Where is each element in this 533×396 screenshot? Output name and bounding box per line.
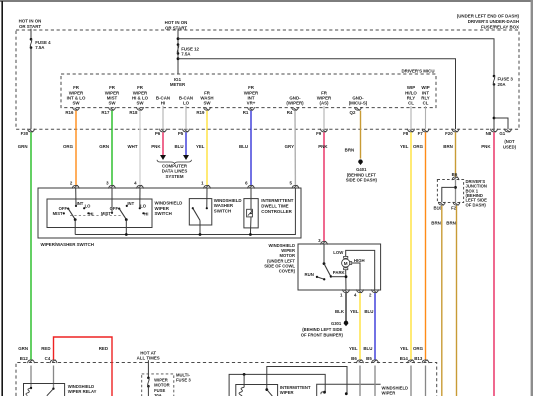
- svg-text:(UNDER LEFT END OF DASH): (UNDER LEFT END OF DASH): [457, 14, 520, 19]
- svg-text:COVER): COVER): [279, 269, 296, 274]
- svg-text:P5: P5: [178, 131, 184, 136]
- svg-text:BRN: BRN: [443, 144, 453, 149]
- wire ORG from F7 to B13: [425, 132, 427, 359]
- label: WINDSHIELD WIPER (lower right): [382, 385, 409, 395]
- svg-text:WINDSHIELD: WINDSHIELD: [214, 198, 242, 203]
- mechanical linkage dashes: [70, 215, 121, 217]
- wire BLU from R1 to dwell controller pin 6: [250, 111, 252, 186]
- fuse F4 7.5A: [30, 38, 51, 50]
- svg-text:ALL TIMES: ALL TIMES: [137, 356, 160, 361]
- fuse F12 7.5A: [177, 43, 200, 56]
- svg-text:LO: LO: [85, 204, 92, 209]
- node: terminal under B6 run: [345, 392, 348, 395]
- wire C4 into wiper relay: [53, 366, 55, 389]
- svg-text:G1: G1: [499, 131, 505, 136]
- svg-text:USED): USED): [503, 144, 517, 149]
- svg-text:PNK: PNK: [151, 144, 161, 149]
- wire BLU from P5 to data-lines arrow: [185, 132, 187, 155]
- feed label: HOT AT ALL TIMES: [137, 350, 160, 360]
- svg-text:N8: N8: [486, 131, 492, 136]
- pin F7 on fuse/relay box: [418, 129, 429, 137]
- svg-text:CL: CL: [423, 101, 429, 106]
- svg-text:(MICU-S): (MICU-S): [349, 101, 368, 106]
- pin F8 on fuse/relay box: [403, 129, 414, 137]
- intermittent dwell time controller inner box: [244, 199, 258, 228]
- svg-text:B10: B10: [433, 205, 442, 210]
- svg-text:WASHER: WASHER: [214, 203, 234, 208]
- module pin column: WIP HI/LO RLY CL: [405, 85, 417, 105]
- wire below wiper motor fuse: [147, 386, 149, 396]
- svg-text:R4: R4: [287, 110, 293, 115]
- wire BRN from F20 to junction box B6: [455, 132, 457, 177]
- node: junction box split: [454, 186, 457, 189]
- wiper switch section A contacts: [53, 201, 94, 217]
- svg-text:DWELL TIME: DWELL TIME: [261, 203, 288, 208]
- svg-text:B6: B6: [351, 356, 357, 361]
- svg-text:(BEHIND LEFT SIDE: (BEHIND LEFT SIDE: [302, 327, 342, 332]
- pin 1 on wiper/washer switch: [201, 180, 210, 188]
- svg-text:HI: HI: [144, 211, 148, 216]
- wire run B (lower horizontal): [229, 374, 325, 396]
- svg-text:GRN: GRN: [18, 144, 28, 149]
- node: PARK contact: [330, 275, 332, 277]
- module pin column: FR WIPER MIST SW: [101, 85, 120, 115]
- wire YEL from F8 to B14: [410, 132, 412, 359]
- svg-text:SWITCH: SWITCH: [155, 211, 172, 216]
- wire stub WIP INT RLY CL to pin F7: [425, 106, 427, 129]
- wire pin3 to MIST contact: [111, 188, 113, 213]
- svg-text:BLU: BLU: [174, 144, 183, 149]
- wire GRN from R17 to switch pin 3: [111, 111, 113, 186]
- svg-text:RED: RED: [99, 346, 108, 351]
- svg-text:BLU: BLU: [363, 346, 372, 351]
- svg-text:F30: F30: [21, 131, 29, 136]
- node: switch A common: [74, 218, 77, 221]
- pin B6 on junction box: [452, 172, 459, 180]
- svg-text:DRIVER'S UNDER-DASH: DRIVER'S UNDER-DASH: [468, 19, 519, 24]
- svg-text:METER: METER: [170, 82, 186, 87]
- svg-text:Q2: Q2: [350, 110, 356, 115]
- wire BRN from B10 down off page: [441, 206, 443, 396]
- wire switch A common to bus: [74, 220, 76, 235]
- pin 5 on wiper/washer switch: [290, 180, 299, 188]
- svg-text:F20: F20: [445, 131, 453, 136]
- wire B6 into relay: [359, 366, 361, 396]
- wire stub FR WIPER AS to pin F9: [323, 106, 325, 129]
- wire B12 into wiper relay: [30, 366, 32, 389]
- wire BRN from F2 down off page: [456, 206, 458, 396]
- wire dwell controller to bus: [249, 217, 252, 235]
- windshield wiper switch inner box: [47, 199, 152, 228]
- svg-text:SW: SW: [136, 101, 144, 106]
- svg-text:HI: HI: [161, 101, 165, 106]
- svg-text:BLU: BLU: [364, 309, 373, 314]
- svg-text:CONTROLLER: CONTROLLER: [261, 209, 292, 214]
- svg-text:R18: R18: [129, 110, 138, 115]
- svg-text:ORG: ORG: [63, 144, 74, 149]
- svg-text:RUN: RUN: [304, 272, 313, 277]
- wire fuse 3 down: [493, 84, 495, 129]
- svg-text:HIGH: HIGH: [354, 258, 365, 263]
- svg-text:INT: INT: [127, 201, 134, 206]
- node: switch B common: [125, 218, 128, 221]
- wire junction box internal B6 to F2: [455, 180, 457, 203]
- svg-text:B5: B5: [366, 356, 372, 361]
- pin 3 on wiper motor: [318, 238, 327, 245]
- wire run A (upper horizontal) to relay contacts: [267, 367, 347, 394]
- module pin column: FR WIPER (AS): [317, 90, 332, 105]
- svg-text:YEL: YEL: [400, 144, 409, 149]
- svg-text:CL: CL: [408, 101, 414, 106]
- svg-text:MIST: MIST: [101, 211, 111, 216]
- pin P5 on fuse/relay box: [178, 129, 190, 137]
- arrowhead B-CAN LO: [183, 155, 189, 160]
- wire motor return to pin 1: [345, 270, 347, 290]
- pin B6 on under-hood box: [351, 356, 363, 363]
- svg-text:SW: SW: [108, 101, 116, 106]
- wiper switch B lever: [119, 209, 126, 220]
- label: G1 not used: [503, 139, 517, 150]
- module pin column: FR WIPER INT & LO SW: [65, 85, 86, 115]
- wire motor high tap to pin 4: [352, 263, 360, 290]
- wire feed down to IG1 meter: [177, 30, 179, 74]
- svg-text:OR START: OR START: [165, 26, 187, 31]
- svg-text:HOT IN ON: HOT IN ON: [165, 20, 188, 25]
- wire BLK from motor pin1 to ground G301: [345, 293, 347, 321]
- fuse: wiper motor fuse 30A: [147, 377, 150, 388]
- svg-text:WIPER: WIPER: [382, 390, 396, 395]
- svg-text:BLK: BLK: [335, 309, 345, 314]
- wire RED from C4 loop to lower right: [54, 337, 113, 396]
- contact lever A: [267, 390, 273, 396]
- svg-text:BRN: BRN: [431, 221, 441, 226]
- pin 6 on wiper/washer switch: [245, 180, 254, 188]
- pin 2 on wiper motor: [369, 289, 378, 297]
- pin F20 on fuse/relay box: [445, 129, 459, 137]
- node: motor return / park junction: [345, 275, 348, 278]
- contact lever B: [321, 392, 325, 394]
- svg-text:MIST: MIST: [53, 211, 63, 216]
- svg-text:PNK: PNK: [481, 144, 491, 149]
- svg-text:YEL: YEL: [350, 309, 359, 314]
- dwell controller element: [247, 209, 253, 217]
- label: DRIVER'S JUNCTION BOX 1 location: [466, 179, 488, 207]
- svg-text:B6: B6: [452, 172, 458, 177]
- svg-text:PARK: PARK: [333, 270, 346, 275]
- pin F9 on fuse/relay box: [316, 129, 327, 137]
- wire PNK from N8 down off page: [493, 132, 495, 396]
- pin P6 on fuse/relay box: [155, 129, 167, 137]
- svg-text:R17: R17: [101, 110, 110, 115]
- svg-text:B14: B14: [400, 356, 409, 361]
- RUN contact: [316, 276, 326, 281]
- pin G1 on fuse/relay box: [499, 129, 511, 137]
- wire PNK from F9 to wiper motor pin 3: [323, 132, 325, 241]
- svg-text:OR START: OR START: [19, 24, 41, 29]
- pin B12 on under-hood box: [20, 356, 35, 363]
- svg-text:20A: 20A: [498, 82, 507, 87]
- under-dash fuse/relay box (dashed outline): [16, 30, 519, 129]
- svg-text:ORG: ORG: [413, 346, 424, 351]
- svg-text:(AS): (AS): [319, 101, 329, 106]
- svg-text:GRN: GRN: [99, 144, 109, 149]
- pin B14 on under-hood box: [400, 356, 415, 363]
- label: fuse/relay box name: [457, 14, 520, 30]
- wire PARK contact to motor return: [331, 276, 346, 278]
- svg-text:7.5A: 7.5A: [181, 52, 191, 57]
- svg-text:F7: F7: [418, 131, 424, 136]
- module pin column: FR WASH SW: [196, 90, 213, 115]
- svg-text:LOW: LOW: [333, 250, 344, 255]
- wire pin2 to INT contact: [75, 188, 77, 206]
- wire B-CAN LO gray segment: [185, 106, 187, 130]
- brace and label: computer data lines system: [157, 160, 192, 179]
- svg-text:WIPER RELAY: WIPER RELAY: [68, 389, 97, 394]
- feed label: HOT IN ON OR START (center): [165, 20, 188, 31]
- wire BLU from motor pin2 to B5: [374, 293, 376, 360]
- arrowhead B-CAN HI: [160, 155, 166, 160]
- bus wire to fuse 3: [178, 39, 494, 76]
- svg-text:HOT IN ON: HOT IN ON: [19, 19, 42, 24]
- fuse F3 20A: [493, 75, 514, 87]
- pin B5 on under-hood box: [366, 356, 378, 363]
- pin 3 on wiper/washer switch: [106, 180, 115, 188]
- svg-text:M: M: [344, 261, 348, 266]
- svg-text:DRIVER'S MICU: DRIVER'S MICU: [401, 69, 434, 74]
- pin F2 on junction box: [451, 202, 460, 211]
- svg-text:BRN: BRN: [345, 147, 355, 152]
- svg-text:GRY: GRY: [285, 144, 294, 149]
- svg-text:OF DASH): OF DASH): [466, 202, 487, 207]
- svg-text:BRN: BRN: [446, 221, 456, 226]
- pin B10 on junction box: [433, 202, 445, 211]
- svg-text:SW: SW: [203, 101, 211, 106]
- svg-text:GRN: GRN: [18, 346, 28, 351]
- wiper motor fuse box (dashed): [142, 374, 174, 396]
- svg-text:F8: F8: [403, 131, 409, 136]
- label: MULTI-FUSE 3: [176, 373, 191, 383]
- intermittent wiper relay box: [236, 385, 278, 396]
- pin 2 on wiper/washer switch: [70, 180, 79, 188]
- washer switch contacts and lever: [192, 207, 208, 220]
- svg-text:YEL: YEL: [400, 346, 409, 351]
- wire B14 into box: [410, 366, 412, 396]
- svg-text:PNK: PNK: [318, 144, 328, 149]
- wire branch to pin G1: [494, 118, 508, 129]
- pin C4 on under-hood box: [45, 356, 57, 363]
- svg-text:FUSE/RELAY BOX: FUSE/RELAY BOX: [481, 25, 519, 30]
- module pin column: FR WIPER HI & LO SW: [129, 85, 148, 115]
- svg-text:OF FRONT BUMPER): OF FRONT BUMPER): [301, 333, 344, 338]
- wire feed to wiper motor fuse: [147, 360, 149, 378]
- windshield wiper motor box: [298, 244, 381, 290]
- node: relay contact A: [265, 388, 268, 391]
- svg-text:FUSE 12: FUSE 12: [181, 46, 199, 51]
- wire switch B common to bus: [125, 220, 127, 235]
- node: coil tap: [243, 373, 246, 376]
- module pin column: WIP INT RLY CL: [421, 85, 429, 105]
- wire feed to fuse 4: [30, 29, 32, 40]
- wire B13 into box: [425, 366, 427, 396]
- under-hood relay box (dashed outline): [16, 363, 437, 396]
- wire GRY from R4 to switch pin 5: [294, 111, 296, 186]
- pin 1 on wiper motor: [340, 289, 349, 297]
- wire B-CAN HI gray segment: [162, 106, 164, 130]
- wire washer switch to bus: [199, 220, 201, 234]
- svg-text:P6: P6: [155, 131, 161, 136]
- label: INTERMITTENT WIPER RELAY: [280, 385, 311, 396]
- ground G301: [301, 321, 349, 338]
- svg-text:B12: B12: [20, 356, 29, 361]
- wire pin6 into dwell controller: [250, 188, 252, 209]
- bus wire to pin F20: [178, 59, 456, 130]
- pin 4 on wiper/washer switch: [134, 180, 143, 188]
- node: relay contact B: [323, 391, 326, 394]
- node: bus junction washer: [199, 233, 202, 236]
- wire pin3 to park switch contact: [323, 244, 325, 263]
- wire YEL from R19 to washer switch pin 1: [206, 111, 208, 186]
- svg-text:7.5A: 7.5A: [35, 45, 45, 50]
- svg-text:WINDSHIELD: WINDSHIELD: [155, 200, 183, 205]
- label: WINDSHIELD WIPER MOTOR location: [264, 243, 295, 274]
- switch common bus wire: [75, 188, 295, 235]
- svg-text:SW: SW: [72, 101, 80, 106]
- svg-text:R19: R19: [196, 110, 205, 115]
- label: WINDSHIELD WASHER SWITCH: [214, 198, 242, 214]
- pin N8 on fuse/relay box: [486, 129, 498, 137]
- svg-text:R16: R16: [65, 110, 74, 115]
- svg-text:VR+: VR+: [247, 101, 256, 106]
- windshield wiper relay box: [24, 384, 65, 396]
- node: fuse3 split to G1: [493, 117, 496, 120]
- wire pin4 to LO contact: [139, 188, 141, 208]
- svg-text:ORG: ORG: [413, 144, 424, 149]
- svg-text:WIPER/WASHER SWITCH: WIPER/WASHER SWITCH: [41, 242, 94, 247]
- feed label: HOT IN ON OR START (left): [19, 19, 42, 29]
- svg-text:R1: R1: [243, 110, 249, 115]
- node: bus2 tap: [177, 57, 180, 60]
- ground G401: [346, 159, 378, 182]
- module pin column: GND- (MICU-S): [349, 95, 368, 115]
- wire YEL from motor pin4 to B6: [359, 293, 361, 360]
- node: park switch input: [323, 262, 326, 265]
- svg-text:WIPER: WIPER: [155, 206, 170, 211]
- wire motor low brush to pin 2: [346, 250, 375, 290]
- motor M1 symbol: [342, 256, 352, 269]
- svg-text:FUSE 3: FUSE 3: [498, 76, 514, 81]
- wire junction box branch to B10: [442, 187, 456, 202]
- svg-text:WHT: WHT: [128, 144, 138, 149]
- module pin column: FR WIPER INT VR+: [243, 85, 259, 115]
- svg-text:INTERMITTENT: INTERMITTENT: [261, 198, 294, 203]
- wire ORG from R16 to switch pin 2: [75, 111, 77, 186]
- gauge control module box IG1 METER / DRIVER'S MICU (dashed): [61, 74, 436, 108]
- label: INTERMITTENT DWELL TIME CONTROLLER: [261, 198, 294, 214]
- wire BRN from Q2 to ground G401: [360, 111, 362, 159]
- svg-text:(NOT: (NOT: [504, 139, 515, 144]
- wire GRN from F30 to B12: [30, 132, 32, 359]
- wire pin1 into washer switch: [206, 188, 208, 208]
- windshield wiper relay 2 box: [317, 384, 381, 396]
- svg-text:F9: F9: [316, 131, 322, 136]
- svg-text:C4: C4: [45, 356, 51, 361]
- wire WHT from R18 to switch pin 4: [139, 111, 141, 186]
- pin 4 on wiper motor: [354, 289, 363, 297]
- pin F30 on fuse/relay box: [21, 129, 35, 137]
- wiper switch section B contacts: [101, 201, 148, 217]
- svg-text:SIDE OF DASH): SIDE OF DASH): [346, 178, 378, 183]
- intermittent wiper relay coil: [239, 387, 244, 396]
- svg-text:SYSTEM: SYSTEM: [165, 174, 183, 179]
- label: IG1 METER: [170, 77, 186, 87]
- module pin column: GND- (WIPER): [286, 95, 304, 115]
- wire stub WIP HI/LO RLY CL to pin F8: [410, 106, 412, 129]
- node: bus junction dwell: [249, 233, 252, 236]
- wire B5 into relay: [374, 366, 376, 396]
- label: WINDSHIELD WIPER RELAY: [68, 384, 97, 394]
- svg-text:G301: G301: [331, 321, 342, 326]
- wiper relay contact: [47, 388, 55, 396]
- wire PNK from P6 to data-lines arrow: [162, 132, 164, 155]
- svg-text:YEL: YEL: [196, 144, 205, 149]
- wiper relay coil: [26, 387, 32, 396]
- svg-text:INT: INT: [77, 201, 84, 206]
- svg-text:SWITCH: SWITCH: [214, 209, 231, 214]
- label: WINDSHIELD WIPER SWITCH: [155, 200, 183, 216]
- wiper switch A lever: [68, 209, 75, 220]
- svg-text:(WIPER): (WIPER): [286, 101, 304, 106]
- wiper/washer switch box: [38, 188, 301, 238]
- svg-text:LO: LO: [183, 101, 190, 106]
- driver's junction box 1 (dashed): [437, 180, 463, 203]
- pin B13 on under-hood box: [414, 356, 429, 363]
- svg-text:B13: B13: [414, 356, 423, 361]
- node: bus1 tap: [177, 37, 180, 40]
- label: WIPER MOTOR FUSE 30A: [154, 378, 170, 396]
- svg-text:BLU: BLU: [239, 144, 248, 149]
- wire fuse 4 to pin F30: [30, 48, 32, 130]
- svg-text:YEL: YEL: [349, 346, 358, 351]
- wire coil tap down: [243, 374, 245, 387]
- module pin column: B-CAN HI: [156, 95, 170, 105]
- windshield washer switch inner box: [189, 199, 212, 225]
- svg-text:FUSE 3: FUSE 3: [176, 378, 191, 383]
- svg-text:RED: RED: [41, 346, 50, 351]
- module pin column: B-CAN LO: [179, 95, 193, 105]
- park switch lever: [324, 264, 331, 277]
- node: bus junction B: [125, 233, 128, 236]
- svg-text:LO: LO: [140, 204, 147, 209]
